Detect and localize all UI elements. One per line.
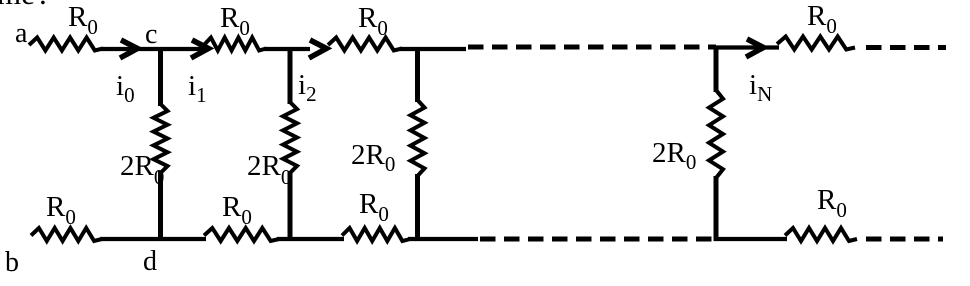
wire branch 1 lower (to node d): [158, 171, 163, 241]
wire top rail: node c to R2: [161, 47, 207, 51]
svg-text:R0: R0: [222, 191, 252, 229]
arrow i2 direction: [309, 40, 327, 58]
wire branch 1 upper (node c down): [158, 48, 163, 106]
svg-text:a: a: [15, 18, 28, 49]
wire top rail dashed continuation: [468, 45, 716, 50]
wire bottom rail dashed to right edge: [866, 237, 943, 242]
resistor R0 (top rail, 2nd): [204, 38, 266, 51]
svg-text:i2: i2: [298, 69, 317, 106]
svg-text:2R0: 2R0: [351, 139, 395, 176]
resistor 2R0 (branch 4): [709, 90, 723, 178]
resistor R0 (bottom rail, 1st): [31, 228, 102, 241]
wire branch 4 lower: [714, 176, 719, 241]
resistor 2R0 (branch 1): [154, 104, 168, 173]
svg-text:R0: R0: [46, 191, 76, 229]
wire branch 4 upper: [714, 46, 719, 92]
svg-text:2R0: 2R0: [652, 137, 696, 174]
wire top rail: branch 4 to R4: [714, 45, 779, 49]
wire top rail: R1 to node c: [101, 47, 161, 51]
svg-text:R0: R0: [817, 184, 847, 222]
wire top rail: R2 to branch 2: [264, 47, 310, 51]
svg-text:i1: i1: [188, 70, 207, 107]
wire top rail: R3 past branch 3: [400, 47, 466, 51]
wire top rail dashed to right edge: [866, 45, 946, 50]
arrow i1 direction: [191, 40, 209, 58]
wire bottom rail: R3 past branch 3: [408, 237, 478, 241]
wire bottom rail dashed continuation: [480, 237, 712, 242]
svg-text:b: b: [5, 247, 19, 278]
wire branch 3 upper: [415, 48, 420, 102]
wire branch 3 lower: [415, 174, 420, 241]
svg-text:R0: R0: [358, 2, 388, 40]
svg-text:R0: R0: [359, 188, 389, 226]
resistor R0 (bottom rail, 4th): [785, 228, 857, 241]
svg-text:c: c: [145, 19, 157, 50]
resistor R0 (top rail, 1st): [29, 38, 103, 51]
arrow iN direction: [746, 39, 764, 57]
svg-text:R0: R0: [68, 1, 98, 39]
arrow i0 direction on top rail: [120, 40, 138, 58]
resistor R0 (bottom rail, 2nd): [204, 228, 279, 241]
wire bottom rail: R2 to R3: [277, 237, 344, 241]
wire branch 2 lower: [288, 171, 293, 241]
wire bottom rail: R1 to node d and on to R2: [100, 237, 206, 241]
resistor R0 (top rail, 4th): [777, 37, 855, 50]
wire branch 2 upper: [288, 48, 293, 104]
wire bottom rail: branch 4 to R4: [714, 237, 787, 241]
resistor 2R0 (branch 3): [411, 100, 425, 176]
resistor 2R0 (branch 2): [283, 102, 297, 173]
svg-text:me.: me.: [0, 0, 47, 11]
svg-text:iN: iN: [749, 69, 772, 106]
resistor R0 (top rail, 3rd): [328, 38, 402, 51]
resistor R0 (bottom rail, 3rd): [342, 228, 410, 241]
svg-text:d: d: [143, 246, 157, 277]
svg-text:R0: R0: [807, 0, 837, 38]
svg-text:i0: i0: [116, 70, 135, 107]
